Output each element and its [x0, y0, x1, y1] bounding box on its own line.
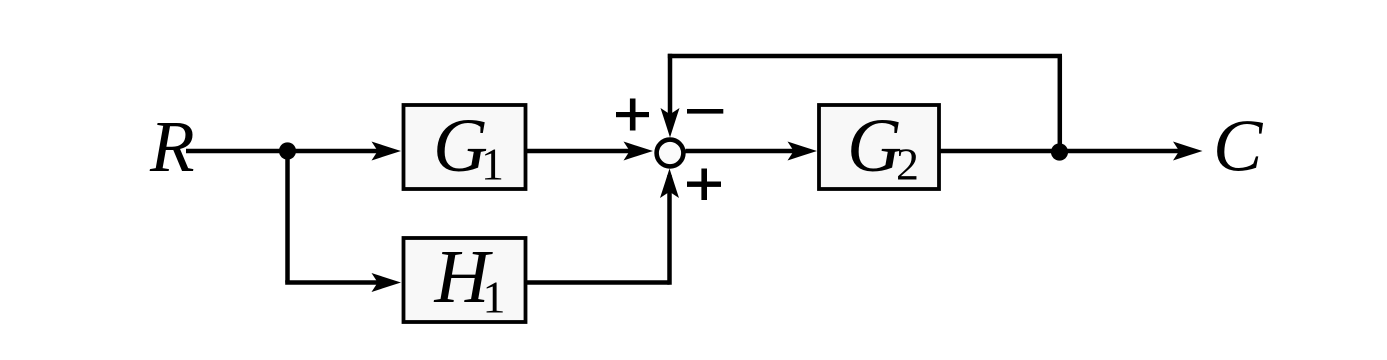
plus sign upper-left of summing junction: [616, 99, 649, 131]
svg-text:G: G: [433, 104, 488, 188]
arrowhead into G1: [372, 142, 402, 161]
block G2: [819, 105, 939, 189]
feedback wire: node B up: [1058, 56, 1063, 151]
feedback wire: top horizontal: [668, 54, 1062, 59]
wire node A down: [285, 151, 290, 283]
feedback wire: down into summing junction: [668, 54, 673, 130]
arrowhead into H1: [372, 273, 402, 292]
wire up into summing junction bottom: [667, 175, 672, 285]
svg-text:C: C: [1213, 106, 1264, 188]
svg-text:1: 1: [481, 139, 504, 190]
svg-text:1: 1: [483, 272, 506, 323]
arrowhead into G2: [788, 142, 818, 161]
node A (pickoff dot after R): [279, 142, 296, 159]
arrowhead into summing junction bottom: [660, 169, 679, 199]
wire H1 output: [526, 280, 670, 285]
svg-text:R: R: [149, 106, 195, 187]
block H1: [404, 238, 526, 322]
svg-text:G: G: [847, 104, 902, 188]
wire node B to C: [1060, 149, 1196, 154]
plus sign lower-right of summing junction: [687, 169, 721, 201]
wire G1 output to summing junction: [526, 149, 646, 154]
wire summing junction to G2 input: [686, 149, 810, 154]
summing junction: [657, 140, 684, 167]
wire R to node A: [186, 149, 288, 154]
arrowhead into summing junction left: [624, 142, 654, 161]
wire G2 output to node B: [939, 149, 1060, 154]
minus sign upper-right of summing junction: [687, 109, 723, 114]
block G1: [404, 105, 526, 189]
wire across to H1 input: [285, 280, 392, 285]
arrowhead into summing junction top: [661, 108, 680, 138]
node B (pickoff dot after G2): [1051, 143, 1068, 160]
wire node A to G1 input: [288, 149, 393, 154]
arrowhead into C: [1173, 142, 1203, 161]
svg-text:2: 2: [896, 139, 919, 190]
